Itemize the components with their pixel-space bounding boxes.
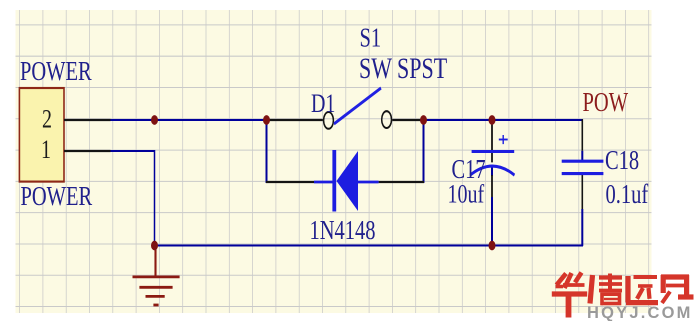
label D1: [311, 89, 335, 118]
power port label POW: [583, 87, 629, 118]
capacitor C17 pin (vertical through plates): [491, 123, 493, 197]
capacitor C18 pin upper: [581, 119, 583, 151]
svg-text:HQYJ.COM: HQYJ.COM: [587, 304, 693, 321]
label POWER (bottom): [21, 181, 93, 212]
connector J1 POWER box: [19, 88, 64, 182]
label C18: [605, 145, 639, 176]
capacitor C18 top plate: [562, 160, 604, 162]
junction (C17 bottom): [489, 241, 496, 251]
watermark char qing: [590, 274, 622, 304]
watermark char hua: [552, 273, 587, 318]
switch S1 left contact circle: [324, 112, 334, 129]
capacitor C18 pin lower: [581, 174, 583, 209]
watermark char jian: [661, 275, 694, 303]
wire: top rail right segment (switch to C18 corner): [424, 119, 583, 121]
junction (C17 top): [489, 115, 496, 125]
label C17: [452, 154, 486, 185]
wire: diode branch right riser: [423, 120, 425, 183]
capacitor C17 polarity +: [499, 135, 508, 144]
wire: C18 riser upper stub and lower wire: [581, 151, 583, 246]
wire: pin1 net from connector to ground rail riser: [110, 151, 155, 246]
switch S1 pin left: [267, 119, 323, 121]
watermark HQYJ.COM: [587, 304, 693, 321]
wire: C17 lower wire to rail: [491, 166, 493, 245]
switch S1 right contact circle: [382, 111, 392, 128]
pin number 2: [42, 105, 52, 134]
watermark char yuan: [626, 276, 658, 303]
capacitor C17 bottom plate (arc): [470, 166, 514, 175]
pin number 1: [41, 136, 51, 165]
connector pin 1: [64, 150, 111, 152]
label 1N4148: [310, 215, 376, 246]
connector pin 2: [64, 119, 111, 121]
junction (pin2 / rail A): [151, 115, 158, 125]
diode D1 pin right: [379, 181, 424, 183]
capacitor C17 top plate: [472, 150, 515, 152]
label 10uf: [448, 180, 485, 209]
junction (ground rail left): [151, 241, 158, 251]
diode D1 pin left: [266, 181, 314, 183]
switch S1 pin right: [392, 119, 424, 121]
junction (switch left branch): [263, 115, 270, 125]
label POWER (top): [20, 56, 92, 87]
diode D1 body: [314, 150, 379, 211]
switch S1 lever: [334, 88, 381, 124]
wire: top rail left segment (pin2 to switch): [110, 119, 267, 121]
capacitor C18 bottom plate: [562, 172, 604, 174]
label 0.1uf: [606, 179, 649, 210]
wire: diode branch left riser: [266, 120, 268, 183]
label S1: [360, 23, 382, 54]
junction (switch right branch): [420, 115, 427, 125]
wire: bottom ground rail: [154, 245, 583, 247]
ground symbol: [133, 246, 180, 305]
label SW SPST: [359, 52, 447, 85]
